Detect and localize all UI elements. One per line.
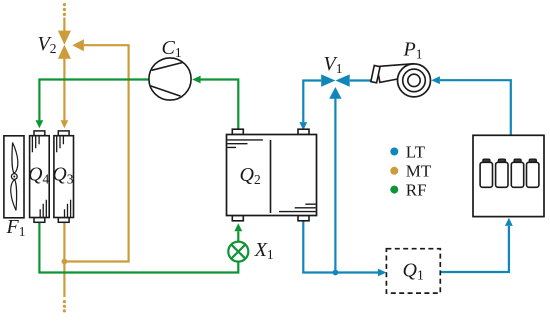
legend MT	[390, 162, 432, 181]
node LT junction	[333, 270, 339, 276]
legend LT	[390, 142, 425, 161]
wire MT feed into V2 (horizontal with arrow)	[72, 39, 128, 51]
wire RF compressor to Q4 (arrow down)	[36, 80, 149, 129]
svg-text:MT: MT	[406, 162, 432, 181]
wire LT V1 to P1	[350, 79, 373, 81]
heat exchanger Q3	[54, 131, 74, 222]
fan F1	[4, 136, 24, 218]
wire LT Q1 to case bottom (arrow up into case)	[441, 218, 513, 272]
wire RF Q4 bottom to X1	[39, 222, 238, 273]
wire LT feed into V1 from below (arrow up)	[329, 87, 341, 273]
compressor C1	[149, 58, 191, 100]
wire RF X1 to Q2 (arrow up)	[234, 223, 242, 241]
legend RF	[390, 180, 426, 199]
wire MT Q3 bottom down	[63, 222, 65, 297]
wire LT case top to P1 (arrow left into pump)	[431, 76, 511, 135]
heat exchanger Q4	[30, 131, 50, 222]
node MT junction	[62, 259, 68, 265]
wire MT V2 top lead	[63, 18, 65, 32]
svg-text:LT: LT	[406, 142, 426, 161]
wire MT dotted stub above V2	[63, 3, 66, 16]
cascade heat exchanger Q2	[227, 129, 317, 221]
wire RF Q2 to compressor (arrow left into C1)	[192, 76, 238, 132]
heat load Q1 (dashed)	[386, 249, 440, 293]
wire LT V1 to Q2 top-right (arrow down)	[299, 81, 321, 131]
pump P1	[371, 64, 431, 97]
wire MT V2 to Q3 (arrow down)	[61, 58, 69, 128]
wire LT Q2 bottom-right to Q1 (arrow right into Q1)	[303, 221, 386, 276]
valve V1	[321, 74, 350, 86]
expansion valve X1	[228, 242, 248, 262]
display case	[473, 135, 544, 216]
valve V2	[58, 31, 71, 59]
svg-text:RF: RF	[406, 180, 427, 199]
wire MT riser (down right of V2)	[64, 44, 128, 261]
wire MT dotted stub bottom	[63, 300, 66, 313]
